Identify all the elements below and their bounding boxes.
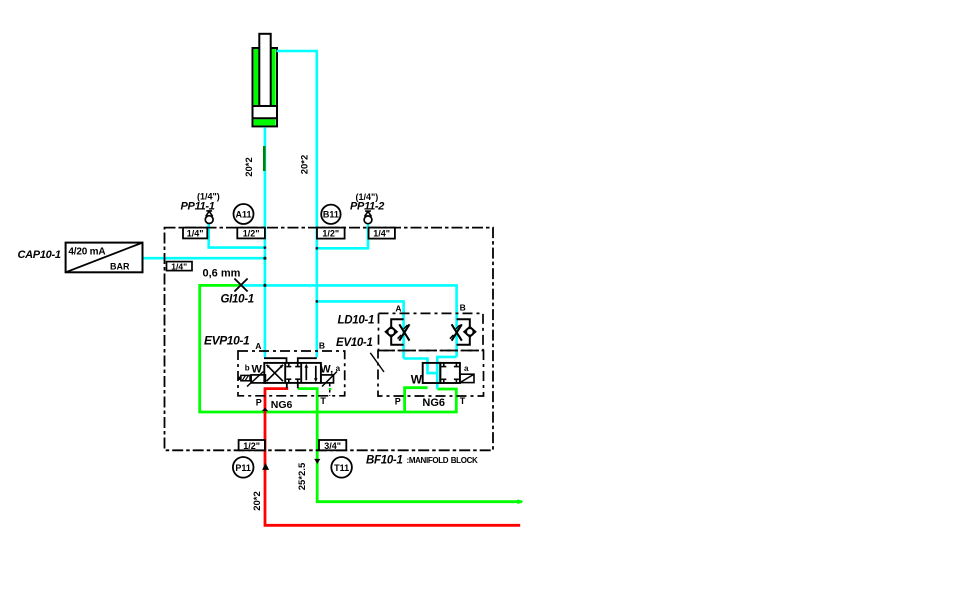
pipe label 20*2 (P11 line) [252,491,263,511]
wire: cyan test line PP11-2 to B line [317,223,368,248]
svg-text:3/4": 3/4" [324,441,341,451]
port box 3/4" (bottom, T11) [319,440,346,451]
wire: green T-line from EVP10-1 T port to bus [298,389,317,412]
drain dashed line (EVP10-1) [329,383,332,396]
valve assembly LD10-1 dashed box [379,303,484,351]
pipe label 25*2.5 (T11 line) [297,462,308,490]
svg-text:4/20 mA: 4/20 mA [68,247,105,258]
solenoid a (EVP10-1 right) [320,364,340,387]
svg-text:1/2": 1/2" [243,441,260,451]
port box 1/4" (top, PP11-1) [183,228,207,239]
wire: green tank bus horizontal [198,411,457,414]
cylinder VE10-1 body [252,48,279,126]
svg-text::MANIFOLD BLOCK: :MANIFOLD BLOCK [407,456,478,465]
flow arrow up on red P line at port P11 [262,463,269,470]
svg-text:P: P [256,397,262,407]
orifice of cartridge B [450,324,462,340]
valve EV10-1 symbol [411,363,474,387]
wire: cyan line from transducer CAP10-1 to A line [143,257,265,260]
port box 1/4" (left, CAP10-1) [167,262,193,272]
label (1/4") PP11-2 [350,192,384,213]
label CAP10-1 [18,249,61,261]
svg-text:GI10-1: GI10-1 [221,294,254,306]
label BF10-1: MANIFOLD BLOCK [366,454,478,466]
node B11 [321,205,340,224]
svg-text:PP11-1: PP11-1 [181,200,215,212]
test point PP11-2 [364,211,372,224]
svg-text:PP11-2: PP11-2 [350,200,384,212]
svg-text:NG6: NG6 [271,399,293,411]
orifice GI10-1 [234,279,247,292]
svg-text:EVP10-1: EVP10-1 [204,333,250,347]
svg-text:25*2.5: 25*2.5 [297,462,308,490]
svg-text:b: b [245,364,250,373]
wire: green EV10-1 right tank stub [437,389,456,412]
label LD10-1 [338,314,375,326]
wire: red pressure line from EVP10-1 P port down and out right [265,389,520,526]
flow arrow up on red P line at bus [262,408,269,412]
port box 1/2" (top, A11) [237,228,265,239]
svg-text:A: A [395,303,401,313]
cylinder rod [259,34,270,106]
svg-text:1/4": 1/4" [373,229,390,239]
svg-text:20*2: 20*2 [300,155,311,175]
svg-text:BF10-1: BF10-1 [366,454,403,466]
svg-text:B: B [460,303,466,313]
junction dot A line / PP11-1 line [264,246,267,249]
svg-text:A: A [255,341,261,351]
junction dot B line / PP11-2 line [315,247,318,250]
transducer CAP10-1 [66,243,143,273]
wire: cyan line from orifice GI10-1 to LD10-1 port B [241,285,457,357]
svg-text:BAR: BAR [110,261,130,271]
svg-text:0,6 mm: 0,6 mm [203,267,241,279]
labels P NG6 T (EV10-1) [395,396,466,409]
label EV10-1 with leader [336,337,384,372]
label EVP10-1 [204,333,250,347]
proportional valve EVP10-1 dashed box [238,340,345,396]
port box 1/4" (top, PP11-2) [369,228,395,239]
wire: cyan line from B line to LD10-1 port A [317,301,404,358]
svg-text:W,: W, [320,364,333,376]
svg-text:LD10-1: LD10-1 [338,314,375,326]
label GI10-1 [221,294,254,306]
throttle-check cartridge (LD10-1 left, A side) [386,319,404,345]
svg-text:1/4": 1/4" [187,229,204,239]
label (1/4") PP11-1 [181,192,220,213]
svg-text:NG6: NG6 [422,397,445,409]
svg-text:P11: P11 [235,463,251,473]
manifold block dashed border BF10-1 [165,228,494,451]
junction dot B line / LD A feed [315,300,318,303]
svg-text:B11: B11 [323,210,339,220]
solenoid b (EVP10-1 left) [238,364,265,387]
labels P NG6 T (EVP10-1) [256,396,327,411]
wire: cyan piston-side line A from cylinder bottom [264,127,267,357]
wire: green EV10-1 left tank stub [405,388,428,412]
orifice of cartridge A [398,324,410,340]
junction dot A line / CAP line [263,257,266,260]
port box 1/2" (bottom, P11) [239,440,265,451]
junction dot A line / orifice line [263,284,266,287]
node T11 [331,457,352,478]
port box 1/2" (top, B11) [317,228,345,239]
svg-text:1/2": 1/2" [322,229,339,239]
pipe label 20*2 (B line) [300,155,311,175]
wire: cyan link LD10-1 B to EV10-1 valve [437,357,456,389]
flow arrow down on green T line at port T11 [314,459,320,464]
svg-text:T: T [460,396,466,406]
wire: green line from orifice GI10-1 down left side to bus [200,285,241,412]
svg-text:1/2": 1/2" [243,229,260,239]
node A11 [234,204,254,224]
svg-text:W: W [411,373,423,387]
hose segment on A line [263,146,266,171]
test point PP11-1 [205,211,213,224]
svg-text:CAP10-1: CAP10-1 [18,249,61,261]
svg-text:EV10-1: EV10-1 [336,337,373,349]
label 0,6 mm [203,267,241,279]
svg-text:P: P [395,397,401,407]
svg-text:20*2: 20*2 [244,157,255,177]
svg-text:T: T [320,396,326,406]
svg-text:a: a [464,364,469,373]
wire: cyan test line PP11-1 to A line [209,223,265,247]
wire: cyan rod-side line from cylinder top to B [277,51,317,357]
svg-text:A11: A11 [235,209,251,219]
svg-text:20*2: 20*2 [252,491,263,511]
wire: green T11 drain line out of manifold to right [317,412,523,504]
throttle-check cartridge (LD10-1 right, B side) [457,319,476,345]
wire: cyan link LD10-1 A to EV10-1 [404,359,438,374]
svg-text:T11: T11 [334,463,349,473]
pipe label 20*2 (A line) [244,157,255,177]
valve EVP10-1 symbol [264,358,321,388]
svg-text:B: B [319,340,325,350]
svg-text:1/4": 1/4" [171,262,187,272]
node P11 [233,457,254,478]
solenoid valve EV10-1 dashed box [378,351,484,397]
